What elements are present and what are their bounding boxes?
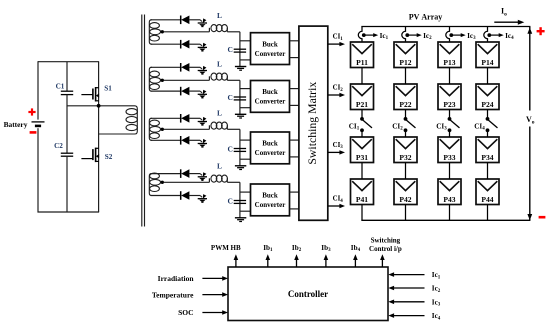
svg-text:L: L [217,11,222,20]
node junction of S1/S2 midpoint [97,104,101,108]
svg-text:Buck: Buck [262,192,278,200]
inductor L (group 2) [209,73,227,80]
svg-text:S1: S1 [104,85,112,93]
wire inductor L to buck converter 2 input node [227,79,240,81]
diode D1a [181,16,190,25]
svg-text:P22: P22 [399,100,411,109]
wire secondary lead to diode D1b [151,43,181,45]
PV module P42 [394,179,417,205]
svg-text:C: C [227,45,232,54]
ground (earth ground below capacitor C of group 3) [235,166,246,170]
PV module P14 [476,42,499,68]
diode D4b [181,191,190,200]
svg-text:Converter: Converter [255,201,286,209]
svg-text:P34: P34 [481,153,493,162]
wire column 3 row2 to switch CI3 [449,110,451,118]
wire buck converter 1 input stubs [240,40,251,42]
node center tap of winding W3 [161,128,164,131]
wire diode D1a cathode to ground [189,19,200,21]
wire diode D2b cathode to ground [189,90,200,92]
diode D1b [181,40,190,49]
switch CI2 (series switch in column 2) [404,117,416,132]
current Ic3 arrow [453,33,466,37]
svg-text:Buck: Buck [262,88,278,96]
wire top bus drop with crossover hop into column 4 [484,27,488,43]
wire secondary lead to diode D2a [151,66,181,68]
capacitor C (group 1) [234,49,246,52]
capacitor C (group 2) [234,97,246,100]
diode D3a [181,114,190,123]
svg-text:P32: P32 [399,153,411,162]
PV module P33 [438,137,461,163]
wire diode D2a cathode to ground [189,66,200,68]
wire inductor L to buck converter 3 input node [227,128,240,130]
wire column 4 row4 to bottom bus [487,205,489,221]
buck converter U3 [251,132,290,164]
svg-text:P24: P24 [481,100,493,109]
PV module P11 [351,42,374,68]
wire buck converter 4 output stubs to switching matrix [290,191,300,193]
capacitor C (group 4) [234,201,246,204]
svg-text:P14: P14 [481,58,493,67]
wire inductor L to buck converter 4 input node [227,181,240,183]
svg-text:P12: P12 [399,58,411,67]
wire buck converter 3 input stubs [240,139,251,141]
wire column 2 row4 to bottom bus [405,205,407,221]
svg-text:Converter: Converter [255,149,286,157]
wire diode D3a cathode to ground [189,117,200,119]
wire top bus drop with crossover hop into column 2 [402,27,406,43]
wire buck converter 2 input stubs [240,88,251,90]
node center tap of winding W1 [161,30,164,33]
wire buck converter 4 input stubs [240,191,251,193]
ground (signal ground after diode D3b) [198,139,207,147]
svg-text:C2: C2 [54,142,63,150]
positive output terminal label [537,27,545,35]
svg-text:Converter: Converter [255,98,286,106]
output voltage Vo measurement line with arrows [527,27,532,221]
wire column 2 row2 to switch CI2 [405,110,407,118]
PV module P21 [351,84,374,110]
wire mid junction (caps midpoint to primary winding top) [67,106,137,134]
wire column 1 row2 to switch CI1 [361,110,363,118]
battery [32,122,45,126]
svg-text:C1: C1 [56,82,65,90]
controller input Ic4 arrow (right side) [388,313,424,318]
switch CI1 (series switch in column 1) [360,117,372,132]
svg-text:P43: P43 [443,195,455,204]
PV module P32 [394,137,417,163]
ground (signal ground after diode D4a) [198,172,207,180]
current Ic2 arrow [409,33,422,37]
ground (earth ground below capacitor C of group 2) [235,114,246,118]
wire secondary lead to diode D4b [151,195,181,197]
transistor S1 (MOSFET) [81,87,99,102]
transistor S2 (MOSFET) [81,148,99,163]
diode D2a [181,63,190,72]
svg-text:C: C [227,93,232,102]
svg-text:Temperature: Temperature [152,290,194,299]
transformer secondary winding W1 [149,20,160,44]
svg-text:P23: P23 [443,100,455,109]
svg-text:P11: P11 [356,58,368,67]
wire column 3 row4 to bottom bus [449,205,451,221]
svg-text:PWM HB: PWM HB [211,244,241,252]
wire diode D4a cathode to ground [189,173,200,175]
current Ic1 arrow [366,33,379,37]
wire switch CI1 to row3 [361,132,363,137]
controller input Ic1 arrow (right side) [388,272,424,277]
transformer secondary winding W3 [149,118,160,140]
PV module P34 [476,137,499,163]
wire controller output SW arrow [380,254,385,267]
svg-text:S2: S2 [105,153,113,161]
svg-text:P13: P13 [443,58,455,67]
PV module P31 [351,137,374,163]
svg-text:P41: P41 [356,195,368,204]
buck converter U2 [251,81,290,113]
ground (signal ground after diode D1a) [198,18,207,26]
controller input Irradiation arrow [202,276,228,281]
wire PV array top bus [361,26,530,28]
buck converter U4 [251,184,290,216]
wire controller output Ib4 arrow [353,254,358,267]
controller input SOC arrow [202,310,228,315]
svg-text:P31: P31 [356,153,368,162]
switch CI4 (series switch in column 4) [486,117,498,132]
svg-text:C: C [227,144,232,153]
wire column 4 row1-row2 [487,68,489,85]
svg-text:Battery: Battery [4,120,28,129]
ground (signal ground after diode D3a) [198,117,207,125]
wire secondary lead to diode D4a [151,173,181,175]
wire column 2 row1-row2 [405,68,407,85]
wire column 1 row4 to bottom bus [361,205,363,221]
ground (signal ground after diode D4b) [198,194,207,202]
wire center tap of W4 to inductor L [164,181,210,183]
wire left rail (battery branch) [37,61,39,119]
wire top rail of half-bridge [38,61,99,63]
node column 3 top tap [449,33,453,37]
svg-text:Switching: Switching [371,237,401,245]
wire diode D4b cathode to ground [189,195,200,197]
wire switching matrix output CI2 arrow [328,93,345,97]
svg-text:Buck: Buck [262,140,278,148]
svg-text:SOC: SOC [178,308,193,317]
wire inductor L to buck converter 1 input node [227,31,240,33]
wire secondary lead to diode D2b [151,90,181,92]
inductor L (group 3) [209,122,227,129]
wire column 1 row1-row2 [361,68,363,85]
node column 4 top tap [487,33,491,37]
transformer primary winding coil loops [126,109,137,131]
buck converter U1 [251,33,290,65]
wire secondary lead to diode D3b [151,139,181,141]
wire center tap of W2 to inductor L [164,79,210,81]
diode D3b [181,136,190,145]
svg-text:Controller: Controller [288,289,328,299]
PV module P22 [394,84,417,110]
svg-text:PV Array: PV Array [409,12,443,21]
inductor L (group 4) [209,175,227,182]
PV module P44 [476,179,499,205]
inductor L (group 1) [209,25,227,32]
wire bottom rail of half-bridge [38,211,100,213]
svg-text:Irradiation: Irradiation [158,274,195,283]
transformer secondary winding W4 [149,173,160,195]
node center tap of winding W4 [161,181,164,184]
diode D4a [181,169,190,178]
node center tap of winding W2 [161,79,164,82]
PV module P12 [394,42,417,68]
svg-text:L: L [217,59,222,68]
wire buck converter 1 output stubs to switching matrix [290,40,300,42]
wire top bus drop with crossover hop into column 3 [446,27,450,43]
wire diode D1b cathode to ground [189,43,200,45]
wire controller output PWM HB arrow [234,254,239,267]
wire column 4 row2 to switch CI4 [487,110,489,118]
wire center tap of W3 to inductor L [164,128,210,130]
svg-text:Buck: Buck [262,40,278,48]
controller block [228,267,388,321]
controller input Ic3 arrow (right side) [388,300,424,305]
wire column 3 row3-row4 [449,163,451,180]
svg-text:Control i/p: Control i/p [369,245,402,253]
transformer secondary winding W2 [149,67,160,91]
capacitor C (group 3) [234,149,246,152]
ground (signal ground after diode D1b) [198,43,207,51]
capacitor C1 [61,62,73,107]
wire right rail (S1/S2 leg) [98,62,100,212]
wire buck converter 3 output stubs to switching matrix [290,139,300,141]
wire diode D3b cathode to ground [189,139,200,141]
svg-text:Switching Matrix: Switching Matrix [305,82,319,165]
wire column 4 row3-row4 [487,163,489,180]
wire column 2 row3-row4 [405,163,407,180]
negative output terminal label [539,216,546,219]
PV module P13 [438,42,461,68]
wire switch CI2 to row3 [405,132,407,137]
wire switch CI4 to row3 [487,132,489,137]
controller input Ic2 arrow (right side) [388,286,424,291]
wire buck converter 2 output stubs to switching matrix [290,88,300,90]
ground (signal ground after diode D2b) [198,90,207,98]
battery minus terminal label [30,131,37,134]
wire PV array bottom bus [361,219,530,221]
wire secondary lead to diode D3a [151,117,181,119]
ground (signal ground after diode D2a) [198,66,207,74]
current Io arrow [494,20,524,25]
wire controller output Ib2 arrow [294,254,299,267]
battery plus terminal label [28,108,35,115]
svg-text:L: L [217,108,222,117]
wire switching matrix output CI4 arrow [328,204,345,208]
svg-text:P44: P44 [481,195,493,204]
PV module P24 [476,84,499,110]
svg-text:P42: P42 [399,195,411,204]
wire top bus drop with crossover hop into column 1 [358,27,362,43]
svg-text:P21: P21 [356,100,368,109]
svg-text:P33: P33 [443,153,455,162]
svg-text:L: L [217,161,222,170]
current Ic4 arrow [491,33,504,37]
PV module P43 [438,179,461,205]
wire switching matrix output CI1 arrow [328,42,345,46]
wire switch CI3 to row3 [449,132,451,137]
controller input Temperature arrow [202,292,228,297]
ground (earth ground below capacitor C of group 1) [235,67,246,71]
PV module P23 [438,84,461,110]
node column 1 top tap [362,33,366,37]
node column 2 top tap [405,33,409,37]
svg-text:C: C [227,196,232,205]
transformer core [142,15,145,227]
wire switching matrix output CI3 arrow [328,150,345,154]
capacitor C2 [61,106,73,213]
switch CI3 (series switch in column 3) [448,117,460,132]
svg-text:Converter: Converter [255,50,286,58]
PV module P41 [351,179,374,205]
switching matrix U5 [299,26,328,220]
diode D2b [181,87,190,96]
wire column 3 row1-row2 [449,68,451,85]
wire column 1 row3-row4 [361,163,363,180]
ground (earth ground below capacitor C of group 4) [235,218,246,222]
wire center tap of W1 to inductor L [164,31,210,33]
wire secondary lead to diode D1a [151,19,181,21]
wire controller output Ib3 arrow [324,254,329,267]
wire controller output Ib1 arrow [266,254,271,267]
